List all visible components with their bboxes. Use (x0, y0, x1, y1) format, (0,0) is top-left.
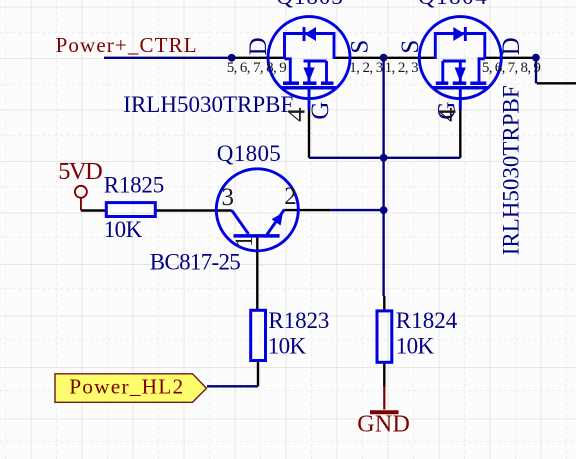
svg-text:R1823: R1823 (268, 308, 329, 333)
svg-text:10K: 10K (396, 333, 435, 358)
svg-text:1, 2, 3: 1, 2, 3 (385, 60, 419, 76)
svg-text:5, 6, 7, 8, 9: 5, 6, 7, 8, 9 (227, 60, 287, 76)
svg-text:BC817-25: BC817-25 (150, 250, 241, 275)
svg-text:1, 2, 3: 1, 2, 3 (349, 60, 383, 76)
svg-text:D: D (245, 37, 272, 55)
svg-text:10K: 10K (104, 217, 143, 242)
svg-text:S: S (397, 40, 424, 54)
svg-text:5VD: 5VD (58, 158, 102, 185)
svg-text:4: 4 (435, 107, 462, 122)
svg-text:3: 3 (222, 184, 235, 211)
svg-text:5, 6, 7, 8, 9: 5, 6, 7, 8, 9 (482, 60, 541, 76)
svg-text:Power+_CTRL: Power+_CTRL (56, 33, 197, 57)
svg-text:2: 2 (284, 183, 297, 210)
svg-text:Q1804: Q1804 (418, 0, 487, 9)
svg-text:R1825: R1825 (104, 173, 165, 198)
svg-text:10K: 10K (268, 333, 307, 358)
svg-text:G: G (307, 102, 334, 120)
svg-text:R1824: R1824 (396, 308, 458, 333)
svg-text:Q1805: Q1805 (217, 141, 281, 166)
svg-text:IRLH5030TRPBF: IRLH5030TRPBF (499, 85, 524, 255)
svg-text:GND: GND (357, 412, 410, 438)
svg-text:S: S (346, 40, 373, 54)
svg-text:1: 1 (231, 236, 258, 247)
svg-text:Power_HL2: Power_HL2 (69, 374, 183, 398)
svg-text:4: 4 (284, 107, 311, 122)
svg-text:Q1803: Q1803 (276, 0, 343, 9)
svg-text:D: D (498, 37, 525, 55)
svg-text:IRLH5030TRPBF: IRLH5030TRPBF (123, 92, 293, 117)
